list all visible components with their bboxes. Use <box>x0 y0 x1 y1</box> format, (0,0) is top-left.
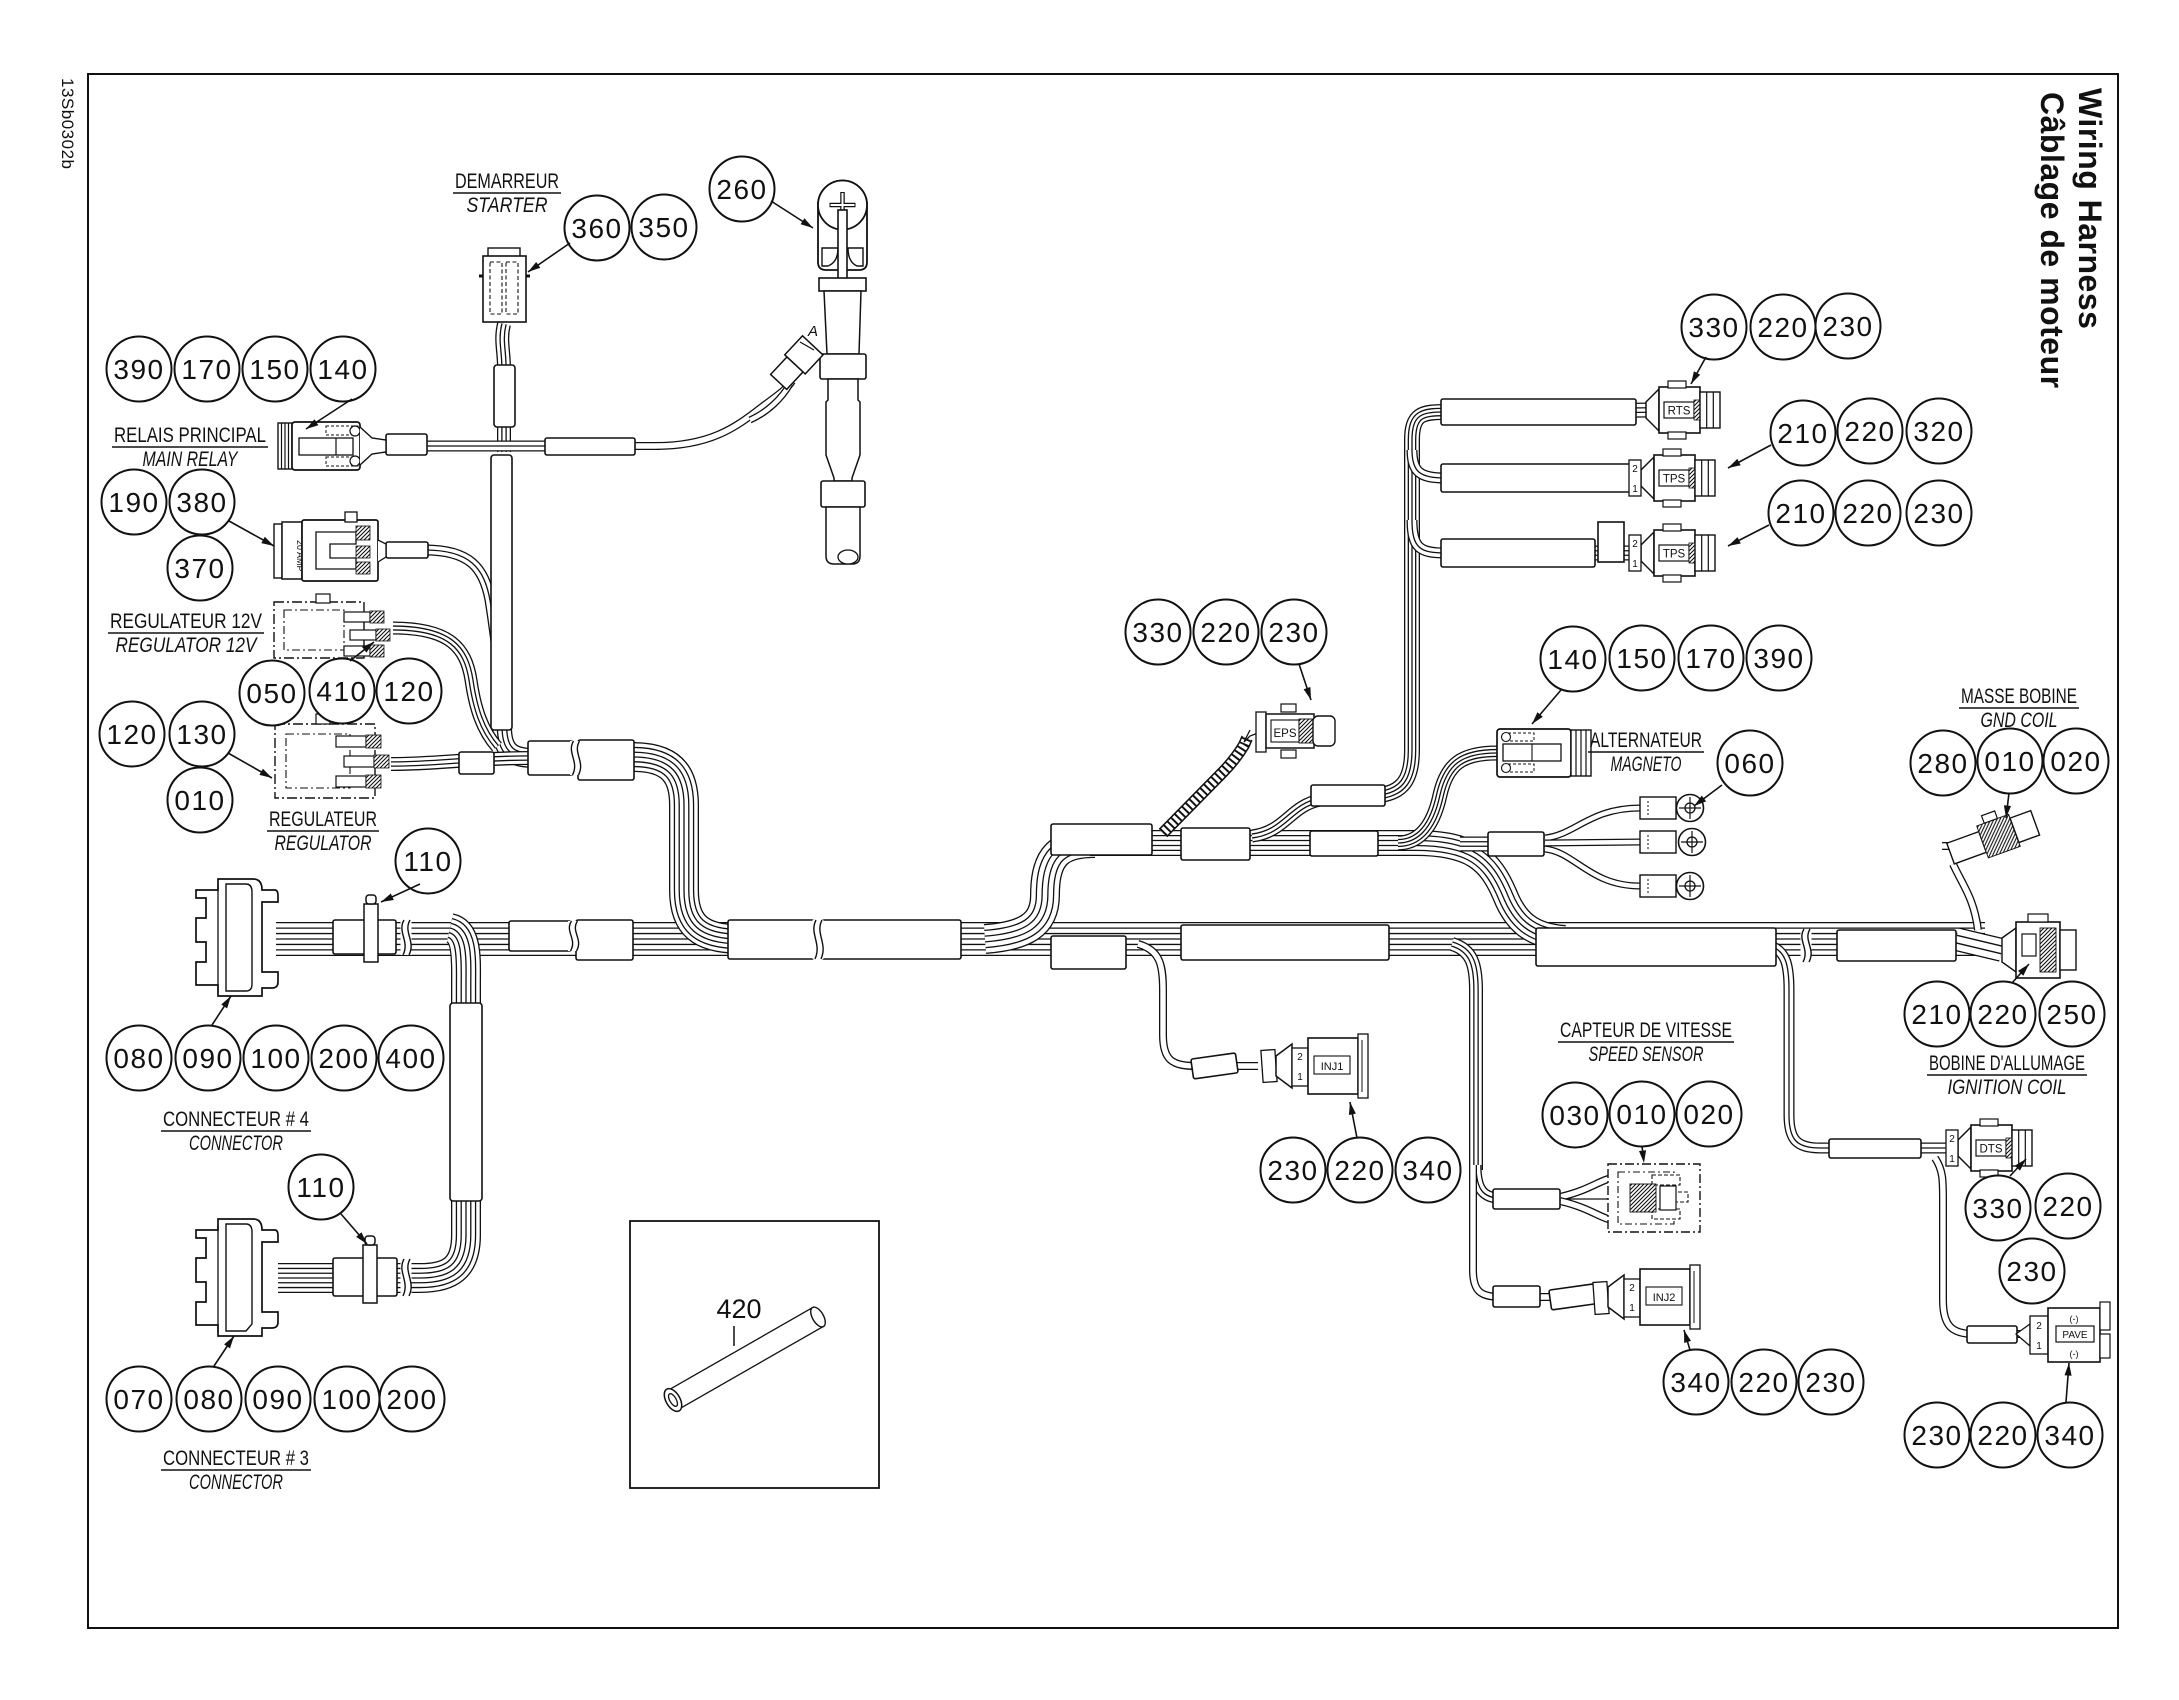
arrow 230 to EPS <box>1299 664 1311 700</box>
connector: TPS row2 <box>1641 457 1654 499</box>
sleeve main E <box>1051 936 1126 969</box>
svg-text:ALTERNATEUR: ALTERNATEUR <box>1590 729 1702 752</box>
callout 380 <box>170 470 235 535</box>
connector: alternator (magneto) <box>1497 729 1571 777</box>
svg-text:1: 1 <box>1629 1303 1635 1314</box>
arrow 260 to battery <box>771 201 813 228</box>
wire: main run rise to top run <box>985 843 1095 939</box>
connector: INJ1 injector <box>1261 1050 1277 1083</box>
svg-text:DEMARREUR: DEMARREUR <box>455 170 559 193</box>
svg-text:060: 060 <box>1724 748 1775 779</box>
wire: gnd coil fan feed <box>1460 837 1545 852</box>
callout 220 <box>1751 295 1816 360</box>
callout 210 <box>1905 982 1970 1047</box>
svg-text:140: 140 <box>317 354 368 385</box>
callout 360 <box>565 196 630 261</box>
wire: starter bundle lower <box>497 426 511 452</box>
clamp 110 conn3 <box>363 1245 377 1303</box>
svg-text:1: 1 <box>1632 484 1638 495</box>
svg-text:110: 110 <box>296 1172 345 1203</box>
svg-text:REGULATOR: REGULATOR <box>275 832 372 855</box>
svg-text:220: 220 <box>1200 617 1251 648</box>
svg-text:340: 340 <box>2044 1420 2095 1451</box>
callout 220 <box>1971 982 2036 1047</box>
svg-text:230: 230 <box>1913 498 1964 529</box>
svg-text:020: 020 <box>1683 1099 1734 1130</box>
sleeve conn4 run <box>333 920 396 954</box>
svg-text:280: 280 <box>1917 748 1968 779</box>
svg-text:SPEED SENSOR: SPEED SENSOR <box>1589 1043 1704 1066</box>
sleeve TPS row3 <box>1441 539 1595 567</box>
callout 220 <box>2036 1174 2101 1239</box>
svg-text:230: 230 <box>1911 1420 1962 1451</box>
callout 220 <box>1838 399 1903 464</box>
svg-text:CONNECTEUR # 3: CONNECTEUR # 3 <box>163 1447 309 1470</box>
sleeve conn3 vertical <box>450 1003 482 1201</box>
svg-text:(-): (-) <box>2070 1349 2079 1359</box>
callout 320 <box>1907 399 1972 464</box>
sleeve junction 1 <box>528 741 573 775</box>
callout 230 <box>1907 481 1972 546</box>
callout 200 <box>312 1026 377 1091</box>
break main GH <box>1801 929 1812 962</box>
connector: TPS row3 <box>1641 532 1654 574</box>
connector: starter (demarreur) <box>488 248 520 258</box>
svg-text:CONNECTEUR # 4: CONNECTEUR # 4 <box>163 1108 309 1131</box>
callout 220 <box>1194 600 1259 665</box>
callout 080 <box>177 1367 242 1432</box>
wire: sensors vertical bundle <box>1380 412 1445 795</box>
wire: INJ2 lead <box>1540 1293 1635 1301</box>
arrow 010 to speed sensor (dashed) <box>1642 1146 1644 1163</box>
callout 110 <box>289 1155 354 1220</box>
callout 020 <box>1677 1082 1742 1147</box>
sleeve relay run <box>545 438 635 455</box>
wire: regulator leads <box>391 758 530 764</box>
battery cable end tube <box>826 507 860 564</box>
wire: speed sensor feed <box>1476 1165 1560 1199</box>
sleeve INJ1 lead slanted <box>1191 1053 1238 1079</box>
callout 090 <box>246 1367 311 1432</box>
wire: junction to main run arc <box>633 757 740 939</box>
svg-text:140: 140 <box>1547 644 1598 675</box>
connector: ignition coil <box>2002 928 2016 972</box>
arrow 010 to masse bobine <box>2006 793 2009 818</box>
svg-text:220: 220 <box>1842 498 1893 529</box>
svg-text:CONNECTOR: CONNECTOR <box>189 1471 283 1494</box>
svg-text:070: 070 <box>113 1384 164 1415</box>
ring terminal 2 (gnd) <box>1640 831 1676 853</box>
sleeve PAVE lead <box>1967 1326 2017 1343</box>
svg-text:PAVE: PAVE <box>2062 1330 2088 1341</box>
connector: DTS right <box>1958 1127 1971 1169</box>
svg-text:INJ1: INJ1 <box>1321 1061 1344 1073</box>
svg-text:200: 200 <box>386 1384 437 1415</box>
wire: relay2 leads <box>378 550 430 552</box>
wire: speed sensor fan <box>1560 1178 1612 1197</box>
sleeve main D long <box>822 920 961 959</box>
svg-text:340: 340 <box>1670 1367 1721 1398</box>
wire: junction vertical (relays down to main run) <box>502 726 630 758</box>
svg-text:210: 210 <box>1911 999 1962 1030</box>
arrow 380 to relay2 <box>229 521 274 546</box>
svg-text:REGULATEUR 12V: REGULATEUR 12V <box>110 610 262 633</box>
callout 330 <box>1682 295 1747 360</box>
wire: relay2 curve to junction <box>425 550 500 672</box>
wire: DTS branch down <box>1768 945 1832 1148</box>
sleeve speed sensor lead <box>1493 1189 1560 1209</box>
sleeve main relay lead <box>386 434 427 455</box>
svg-text:150: 150 <box>249 354 300 385</box>
svg-text:IGNITION COIL: IGNITION COIL <box>1948 1076 2067 1099</box>
svg-text:A: A <box>807 323 818 340</box>
svg-text:410: 410 <box>316 676 367 707</box>
callout 120 <box>377 659 442 724</box>
svg-text:RTS: RTS <box>1668 406 1691 418</box>
item 420 box <box>630 1221 879 1488</box>
sleeve relay2 lead <box>386 542 428 558</box>
wire: starter leads down <box>502 324 504 368</box>
sleeve INJ2 slanted <box>1549 1284 1596 1310</box>
callout 080 <box>107 1026 172 1091</box>
sleeve INJ2 lead <box>1493 1286 1540 1307</box>
svg-text:Câblage de moteur: Câblage de moteur <box>2034 92 2070 389</box>
callout 170 <box>1679 626 1744 691</box>
sleeve main B <box>576 920 633 960</box>
callout 110 <box>396 829 461 894</box>
svg-text:020: 020 <box>2050 746 2101 777</box>
battery cable sleeve 1 <box>820 354 866 379</box>
sleeve main F long <box>1181 925 1389 960</box>
callout 340 <box>2038 1403 2103 1468</box>
wire: gnd coil branch up from main run <box>1953 864 1978 930</box>
callout 280 <box>1911 731 1976 796</box>
svg-text:2: 2 <box>1297 1052 1303 1063</box>
svg-text:220: 220 <box>1334 1155 1385 1186</box>
sleeve top run 1 <box>1051 824 1152 855</box>
sleeve top run 3 <box>1310 831 1378 856</box>
connector: relay 2 (20 AMP fuse) <box>274 524 282 578</box>
callout 100 <box>244 1026 309 1091</box>
callout 190 <box>102 470 167 535</box>
wire: ring terminal 2 wire <box>1545 842 1640 843</box>
callout 330 <box>1126 600 1191 665</box>
connector: battery positive terminal <box>818 181 867 271</box>
callout 220 <box>1971 1403 2036 1468</box>
svg-text:2: 2 <box>1632 464 1638 475</box>
svg-text:250: 250 <box>2046 999 2097 1030</box>
svg-text:TPS: TPS <box>1663 474 1686 486</box>
break main CD <box>813 920 824 959</box>
svg-text:GND COIL: GND COIL <box>1981 709 2058 732</box>
arrow 110 to clamp conn3 <box>341 1214 367 1244</box>
callout 060 <box>1718 731 1783 796</box>
svg-text:390: 390 <box>1753 643 1804 674</box>
svg-text:REGULATEUR: REGULATEUR <box>269 808 377 831</box>
wire: ring terminal 1 wire <box>1545 808 1640 838</box>
wire: top run horizontal <box>1090 830 1420 856</box>
svg-text:110: 110 <box>403 846 452 877</box>
sleeve conn3 run <box>333 1258 397 1296</box>
callout 150 <box>1610 626 1675 691</box>
ring terminal 3 (gnd) <box>1640 875 1676 897</box>
wire: PAVE drop <box>1935 1158 2034 1334</box>
svg-text:330: 330 <box>1972 1193 2023 1224</box>
connector: regulator <box>275 724 375 798</box>
arrow 340 to INJ2 <box>1684 1330 1690 1350</box>
arrow 140 to main relay <box>306 399 352 429</box>
wire: regulator 12V leads curve <box>393 628 497 747</box>
sleeve long vertical below relays <box>491 455 512 730</box>
svg-text:Wiring Harness: Wiring Harness <box>2072 88 2108 329</box>
svg-text:350: 350 <box>638 212 689 243</box>
svg-text:2: 2 <box>2036 1321 2042 1332</box>
svg-text:RELAIS PRINCIPAL: RELAIS PRINCIPAL <box>114 424 266 447</box>
svg-text:090: 090 <box>252 1384 303 1415</box>
callout 070 <box>107 1367 172 1432</box>
sleeve RTS row <box>1441 399 1636 425</box>
svg-text:320: 320 <box>1913 416 1964 447</box>
battery terminal lower bracket <box>822 248 863 266</box>
callout 010 <box>168 768 233 833</box>
callout 230 <box>1262 600 1327 665</box>
connector: speed sensor <box>1608 1164 1700 1232</box>
arrow 330 to DTS <box>2010 1159 2026 1176</box>
callout 410 <box>310 659 375 724</box>
callout 010 <box>1978 729 2043 794</box>
battery terminal collar <box>819 278 866 291</box>
callout 050 <box>240 661 305 726</box>
svg-text:120: 120 <box>383 676 434 707</box>
wire: top run rejoin main harness <box>1415 843 1565 938</box>
svg-text:340: 340 <box>1402 1155 1453 1186</box>
svg-text:400: 400 <box>385 1043 436 1074</box>
wire: ring terminal 3 wire <box>1545 849 1640 886</box>
callout 030 <box>1543 1083 1608 1148</box>
svg-text:050: 050 <box>246 678 297 709</box>
svg-text:370: 370 <box>174 553 225 584</box>
svg-text:170: 170 <box>1685 643 1736 674</box>
svg-text:REGULATOR 12V: REGULATOR 12V <box>116 634 259 657</box>
sleeve top run 2 <box>1181 828 1250 860</box>
callout 130 <box>170 702 235 767</box>
sleeve S-curve B <box>1311 785 1385 806</box>
svg-text:010: 010 <box>1616 1099 1667 1130</box>
svg-text:BOBINE D'ALLUMAGE: BOBINE D'ALLUMAGE <box>1929 1052 2085 1075</box>
connector: INJ2 injector <box>1593 1282 1609 1315</box>
sleeve DTS lead <box>1829 1139 1921 1158</box>
square ferrite TPS row3 <box>1598 522 1624 562</box>
callout 390 <box>1747 626 1812 691</box>
battery A-boot connector <box>768 336 823 392</box>
svg-text:TPS: TPS <box>1663 549 1686 561</box>
sleeve on starter lead <box>494 365 515 427</box>
connector: main relay <box>278 423 292 469</box>
connector: connecteur #4 <box>196 879 278 996</box>
break mark junction <box>570 741 581 775</box>
callout 140 <box>1541 627 1606 692</box>
svg-text:080: 080 <box>113 1043 164 1074</box>
wire: INJ1 branch <box>1138 944 1258 1066</box>
relay2 taper <box>378 540 386 562</box>
sleeve main H right <box>1837 930 1956 961</box>
wire: RTS row wires <box>1445 410 1652 412</box>
callout 220 <box>1732 1350 1797 1415</box>
relay2 hatch pins <box>356 526 370 540</box>
connector: RTS throttle sensor <box>1646 389 1659 431</box>
wire: DTS lead <box>1918 1143 1962 1154</box>
svg-text:010: 010 <box>174 785 225 816</box>
callout 140 <box>311 337 376 402</box>
svg-text:390: 390 <box>113 354 164 385</box>
callout 230 <box>2000 1239 2065 1304</box>
battery cable mid tube <box>826 379 860 481</box>
svg-text:230: 230 <box>1268 617 1319 648</box>
arrow 080 to connector 3 <box>214 1336 234 1366</box>
svg-text:220: 220 <box>1844 416 1895 447</box>
callout 210 <box>1769 481 1834 546</box>
connector: masse bobine (gnd coil) <box>1942 799 2041 869</box>
arrow 330 to RTS <box>1691 357 1706 384</box>
connector: connecteur #3 <box>196 1219 278 1336</box>
wire: branch to TPS row3 <box>1412 520 1445 553</box>
callout 350 <box>632 195 697 260</box>
sleeve gnd fan <box>1488 832 1544 856</box>
callout 250 <box>2040 982 2105 1047</box>
wire: branch to connector 3 (down loop) <box>278 928 466 1278</box>
callout 230 <box>1905 1403 1970 1468</box>
svg-text:130: 130 <box>176 719 227 750</box>
svg-text:INJ2: INJ2 <box>1653 1292 1676 1304</box>
svg-text:1: 1 <box>1297 1072 1303 1083</box>
callout 200 <box>380 1367 445 1432</box>
battery cable sleeve 2 <box>821 481 865 507</box>
wire: speed sensor + injector vertical branch <box>1452 944 1476 1170</box>
arrow 220 to INJ1 <box>1350 1102 1357 1138</box>
svg-text:2: 2 <box>1949 1134 1955 1145</box>
svg-text:220: 220 <box>1738 1367 1789 1398</box>
wire: main harness bottom run <box>276 922 1985 956</box>
callout 090 <box>176 1026 241 1091</box>
arrow 130 to regulator <box>228 753 272 778</box>
wire: S-curve up to sensors vertical bundle <box>1252 796 1378 836</box>
item 420 tube <box>661 1305 829 1415</box>
svg-text:210: 210 <box>1775 498 1826 529</box>
break main AB <box>568 921 579 951</box>
clamp 110 conn4 <box>364 904 378 962</box>
svg-text:230: 230 <box>1805 1367 1856 1398</box>
regulator 12V top tab <box>316 594 330 603</box>
callout 170 <box>175 337 240 402</box>
svg-text:220: 220 <box>2042 1191 2093 1222</box>
wire: main relay leads <box>362 441 548 452</box>
ring terminal 1 (gnd) <box>1640 797 1676 819</box>
wire: TPS row3 wires <box>1445 546 1648 561</box>
svg-text:EPS: EPS <box>1273 728 1296 740</box>
arrow 060 to ring terminal <box>1694 785 1722 806</box>
sleeve main C <box>728 920 814 959</box>
sleeve main A <box>509 921 571 951</box>
svg-text:080: 080 <box>183 1384 234 1415</box>
sleeve main G right <box>1536 928 1776 966</box>
svg-text:100: 100 <box>321 1384 372 1415</box>
svg-text:CAPTEUR DE VITESSE: CAPTEUR DE VITESSE <box>1560 1019 1732 1042</box>
wire: alternator branch <box>1398 753 1497 843</box>
svg-text:260: 260 <box>716 174 767 205</box>
battery cable upper body <box>824 291 861 354</box>
arrow 090 to connector 4 <box>212 996 231 1025</box>
svg-text:330: 330 <box>1688 312 1739 343</box>
wire: battery cable A-boot lead <box>750 384 790 420</box>
break conn3 run <box>401 1259 412 1296</box>
svg-text:1: 1 <box>1949 1154 1955 1165</box>
svg-text:1: 1 <box>2036 1341 2042 1352</box>
svg-text:330: 330 <box>1132 617 1183 648</box>
arrow 110 to clamp conn4 <box>381 884 420 902</box>
svg-text:210: 210 <box>1777 418 1828 449</box>
sleeve TPS row2 <box>1441 464 1633 492</box>
arrow 410 to regulator 12V <box>350 642 374 661</box>
svg-text:13Sb0302b: 13Sb0302b <box>58 78 77 169</box>
callout 370 <box>168 536 233 601</box>
main relay taper <box>360 427 386 465</box>
svg-text:420: 420 <box>716 1294 761 1324</box>
callout 220 <box>1836 481 1901 546</box>
sleeve junction 2 <box>578 740 634 780</box>
callout 230 <box>1261 1138 1326 1203</box>
callout 220 <box>1328 1138 1393 1203</box>
callout 340 <box>1664 1350 1729 1415</box>
svg-text:150: 150 <box>1616 643 1667 674</box>
arrow 210 to TPS row3 <box>1728 525 1769 546</box>
svg-text:230: 230 <box>1822 311 1873 342</box>
arrow 360 to starter <box>528 243 570 272</box>
wire: battery lead curve <box>655 381 792 446</box>
arrow 140 to alternator <box>1532 690 1561 724</box>
svg-text:(-): (-) <box>2070 1314 2079 1324</box>
callout 340 <box>1396 1138 1461 1203</box>
callout 210 <box>1771 401 1836 466</box>
sleeve regulator lead <box>459 752 494 774</box>
callout 010 <box>1610 1082 1675 1147</box>
callout 120 <box>100 702 165 767</box>
svg-text:120: 120 <box>106 719 157 750</box>
callout 230 <box>1799 1350 1864 1415</box>
callout 230 <box>1816 294 1881 359</box>
svg-text:010: 010 <box>1984 746 2035 777</box>
svg-text:090: 090 <box>182 1043 233 1074</box>
svg-text:220: 220 <box>1977 1420 2028 1451</box>
svg-text:2: 2 <box>1629 1283 1635 1294</box>
wire: branch to TPS row2 <box>1412 450 1445 478</box>
svg-text:170: 170 <box>181 354 232 385</box>
arrow 340 to PAVE <box>2066 1363 2069 1402</box>
wire: main relay run right <box>630 442 660 450</box>
callout 400 <box>379 1026 444 1091</box>
svg-text:030: 030 <box>1549 1100 1600 1131</box>
connector: regulator 12V <box>274 602 364 658</box>
svg-text:2: 2 <box>1632 539 1638 550</box>
wire: INJ2 drop <box>1473 1165 1552 1297</box>
svg-text:220: 220 <box>1977 999 2028 1030</box>
arrow 210 to TPS row2 <box>1728 445 1771 468</box>
svg-text:MASSE BOBINE: MASSE BOBINE <box>1961 685 2077 708</box>
wire: ignition coil taper <box>1956 939 2002 950</box>
svg-text:220: 220 <box>1757 312 1808 343</box>
connector: PAVE <box>2016 1324 2030 1346</box>
svg-text:190: 190 <box>108 487 159 518</box>
callout 330 <box>1966 1176 2031 1241</box>
